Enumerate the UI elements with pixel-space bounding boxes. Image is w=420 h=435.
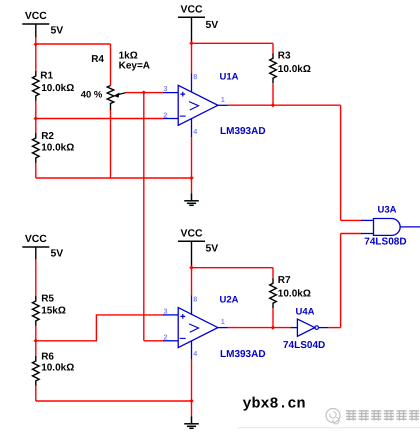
junction node C (wiper) [142, 90, 146, 94]
wire node B to R2 top [35, 119, 37, 134]
wire R3 bottom to U1A output net [272, 83, 274, 105]
svg-text:VCC: VCC [181, 228, 203, 239]
ground GND1 [184, 194, 199, 206]
wire node C to U2A pin 2 [144, 340, 164, 342]
svg-text:5V: 5V [51, 26, 64, 37]
wire to ground symbol [191, 178, 193, 194]
junction node VCC1/R1/R4 [34, 42, 38, 46]
power VCC4 VCC symbol [178, 228, 218, 266]
svg-text:ybx8.cn: ybx8.cn [243, 396, 306, 413]
svg-text:LM393AD: LM393AD [220, 349, 266, 360]
svg-text:3: 3 [164, 306, 168, 315]
wire node B to U1A pin 2 [36, 118, 164, 120]
wire R2 bottom to ground rail [35, 163, 37, 178]
svg-text:LM393AD: LM393AD [220, 126, 266, 137]
svg-text:74LS08D: 74LS08D [364, 237, 406, 248]
svg-text:U1A: U1A [220, 72, 239, 83]
power VCC1 VCC symbol [22, 11, 63, 38]
op-amp comparator U2A (LM393AD) [163, 296, 228, 360]
wire VCC3 to R5 top [35, 259, 37, 296]
power VCC3 VCC symbol [22, 234, 63, 260]
wire U1A pin 4 to ground rail [191, 137, 193, 178]
resistor R6 [33, 356, 40, 386]
svg-text:5V: 5V [206, 20, 219, 31]
svg-text:2: 2 [164, 333, 168, 342]
svg-text:Key=A: Key=A [119, 61, 150, 72]
wire U2A output to U4A input [228, 327, 291, 329]
wire VCC rail to R4 top [36, 43, 111, 45]
wire to U3A input A [341, 219, 362, 221]
junction ground rail / U1A pin 4 [189, 176, 193, 180]
wire VCC2 rail to R3 [192, 42, 274, 44]
wire down to potentiometer R4 [110, 44, 112, 86]
watermark chinese text [346, 410, 419, 421]
svg-text:40 %: 40 % [81, 90, 103, 101]
svg-text:10.0kΩ: 10.0kΩ [41, 362, 74, 373]
wire VCC4 to U2A pin 8 [191, 268, 193, 296]
AND gate U3A (74LS08D) [361, 219, 420, 236]
svg-text:10.0kΩ: 10.0kΩ [278, 288, 311, 299]
wire VCC4 rail to R7 [192, 267, 274, 269]
wire node C down to U2A pin 2 [143, 93, 145, 341]
junction node VCC4 [189, 265, 193, 269]
svg-text:R4: R4 [91, 54, 104, 65]
resistor R5 [33, 296, 40, 326]
faint divider line [238, 427, 420, 428]
svg-text:R6: R6 [41, 352, 54, 363]
svg-text:5V: 5V [206, 243, 219, 254]
wire R6 bottom to ground rail [35, 386, 37, 401]
wire VCC2 to U1A pin 8 [191, 43, 193, 73]
svg-text:8: 8 [193, 72, 197, 81]
wire R7 top lead [272, 268, 274, 279]
wire node D to R6 top [35, 341, 37, 356]
ground GND2 [184, 417, 199, 429]
svg-text:2: 2 [164, 110, 168, 119]
wire U1A output [228, 104, 340, 106]
wire R7 bottom to U2A output net [272, 308, 274, 327]
wire R3 top lead [272, 43, 274, 53]
watermark logo bottom right [326, 409, 340, 424]
junction U2A output / R7 [271, 325, 275, 329]
svg-text:R5: R5 [41, 294, 54, 305]
wire R1 bottom to node B [35, 101, 37, 119]
inverter U4A (74LS04D) [291, 319, 328, 336]
wire node D to U2A pin 3 [36, 315, 164, 341]
resistor R1 [33, 71, 40, 101]
junction ground rail / U2A pin 4 [189, 399, 193, 403]
svg-text:15kΩ: 15kΩ [41, 306, 66, 317]
svg-text:U2A: U2A [220, 295, 239, 306]
svg-text:5V: 5V [51, 249, 64, 260]
junction U1A output / R3 [271, 103, 275, 107]
wire to ground symbol [191, 401, 193, 417]
op-amp comparator U1A (LM393AD) [163, 73, 228, 137]
svg-text:1: 1 [221, 95, 225, 104]
svg-text:VCC: VCC [25, 234, 47, 245]
power VCC2 VCC symbol [178, 4, 218, 42]
wire U4A output up to U3A input B [340, 234, 342, 328]
junction node VCC2 [189, 41, 193, 45]
resistor R7 [270, 278, 277, 308]
svg-text:10.0kΩ: 10.0kΩ [278, 64, 311, 75]
svg-text:R1: R1 [40, 71, 53, 82]
wire U1A output down to U3A input A [340, 105, 342, 220]
svg-text:VCC: VCC [25, 11, 47, 22]
svg-text:8: 8 [193, 294, 197, 303]
resistor R3 [270, 53, 277, 83]
svg-text:VCC: VCC [181, 4, 203, 15]
wire bottom ground rail [36, 400, 192, 402]
svg-text:3: 3 [164, 84, 168, 93]
wire U2A pin 4 to ground rail [191, 360, 193, 401]
resistor R2 [33, 133, 40, 163]
wire to U3A input B [341, 233, 362, 235]
wire VCC to R1 top [35, 44, 37, 71]
svg-text:U3A: U3A [378, 205, 397, 216]
wire top ground rail [36, 177, 192, 179]
wire U4A output [328, 327, 341, 329]
svg-text:4: 4 [193, 349, 197, 358]
wire R5 bottom to node D [35, 326, 37, 341]
junction node B (R1/R2) [34, 116, 38, 120]
svg-text:R3: R3 [278, 51, 291, 62]
junction node D (R5/R6) [34, 339, 38, 343]
svg-text:4: 4 [193, 127, 197, 136]
svg-text:10.0kΩ: 10.0kΩ [41, 83, 74, 94]
svg-text:1: 1 [221, 317, 225, 326]
svg-text:R7: R7 [278, 275, 291, 286]
wire node C to U1A pin 3 [144, 92, 164, 94]
svg-text:10.0kΩ: 10.0kΩ [41, 142, 74, 153]
wire R4 bottom to ground rail [110, 110, 112, 178]
potentiometer R4 [107, 86, 125, 111]
svg-text:U4A: U4A [296, 307, 315, 318]
svg-text:74LS04D: 74LS04D [283, 340, 325, 351]
svg-text:R2: R2 [41, 131, 54, 142]
wire R4 wiper to node C [126, 92, 144, 94]
wire VCC1 stem to node [35, 37, 37, 44]
